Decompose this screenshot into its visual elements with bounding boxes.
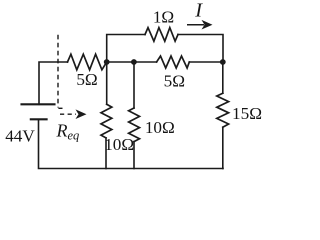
resistor 15Ω zigzag	[217, 93, 229, 127]
svg-text:10Ω: 10Ω	[145, 118, 175, 137]
svg-text:10Ω: 10Ω	[104, 135, 134, 154]
resistor 15Ω bottom lead	[222, 127, 224, 168]
svg-text:5Ω: 5Ω	[76, 70, 97, 89]
resistor 10Ω (left vertical) top lead	[106, 62, 108, 104]
resistor 15Ω (right vertical) top lead	[222, 62, 224, 93]
wire: top wire right segment and right riser down to right node	[178, 35, 223, 63]
node C junction dot (15Ω top)	[220, 59, 226, 65]
svg-text:Req: Req	[56, 120, 80, 142]
resistor 10Ω (right vertical) bottom lead	[133, 142, 135, 169]
resistor 10Ω (right vertical) top lead	[133, 62, 135, 108]
current I arrow shaft	[187, 24, 204, 26]
Req dashed arrow shaft	[60, 113, 76, 115]
wire: bottom return wire	[39, 119, 224, 168]
resistor 10Ω (left vertical) bottom lead	[105, 138, 107, 169]
node A junction dot (left 10Ω top)	[104, 59, 110, 65]
svg-text:I: I	[194, 0, 203, 22]
dashed boundary line for Req	[57, 35, 59, 108]
resistor 10Ω (right vertical) zigzag	[129, 108, 140, 142]
current I arrowhead	[202, 20, 213, 30]
wire: left riser from node A up to top wire	[107, 35, 145, 63]
svg-text:1Ω: 1Ω	[153, 7, 174, 26]
node B junction dot (right 10Ω top)	[131, 59, 137, 65]
svg-text:5Ω: 5Ω	[164, 72, 185, 91]
resistor 1Ω (top horizontal)	[145, 28, 178, 42]
battery 44V positive plate (long)	[22, 103, 55, 105]
dashed corner piece of Req boundary	[58, 107, 62, 109]
resistor 5Ω (left horizontal)	[68, 54, 107, 70]
resistor 5Ω (middle horizontal)	[157, 56, 190, 68]
wire: middle row from node A to middle 5Ω	[107, 61, 157, 63]
resistor 10Ω (left vertical) zigzag	[101, 104, 112, 138]
wire: middle node from battery + up-left corner to left 5Ω	[39, 62, 68, 104]
wire: middle row from middle 5Ω to right node	[189, 61, 223, 63]
battery 44V negative plate (short)	[31, 118, 47, 120]
Req arrowhead	[76, 109, 87, 119]
svg-text:15Ω: 15Ω	[232, 104, 262, 123]
svg-text:44V: 44V	[5, 127, 35, 146]
